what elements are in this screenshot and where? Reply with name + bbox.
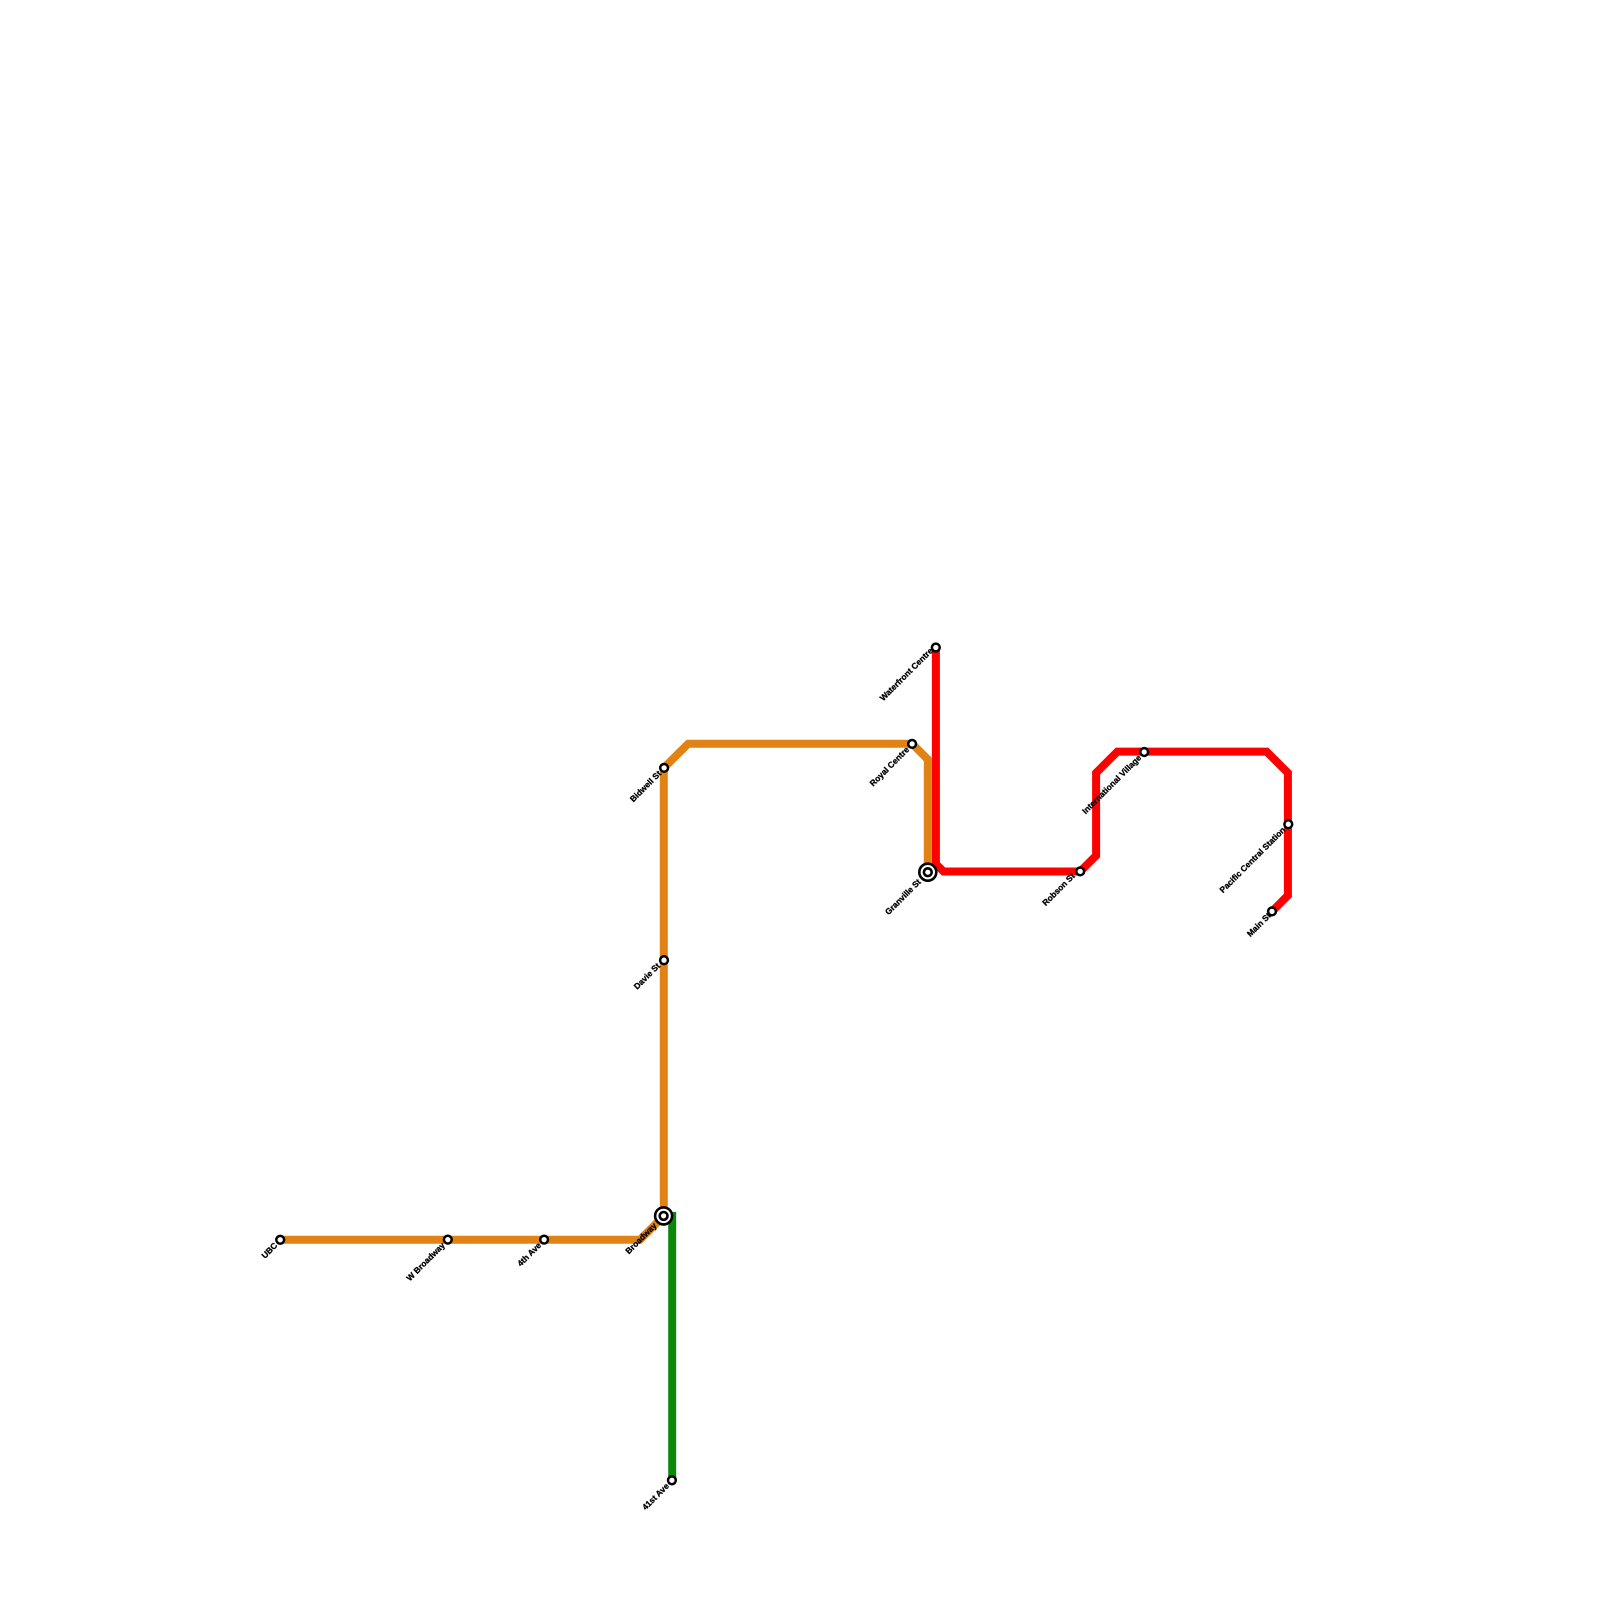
- station Davie St: [660, 956, 668, 964]
- station Pacific Central Station: [1284, 820, 1292, 828]
- station W Broadway: [444, 1236, 452, 1244]
- station Main St: [1268, 908, 1276, 916]
- station Robson St: [1076, 868, 1084, 876]
- interchange Granville St: [919, 864, 936, 881]
- station 41st Ave: [668, 1476, 676, 1484]
- interchange Broadway: [655, 1207, 672, 1224]
- station Bidwell St: [660, 764, 668, 772]
- orange line UBC to Granville St: [280, 744, 928, 1240]
- red line Waterfront Centre to Main St: [936, 648, 1288, 912]
- station Waterfront Centre: [932, 644, 940, 652]
- station UBC: [276, 1236, 284, 1244]
- green line Broadway to 41st Ave: [668, 1212, 676, 1480]
- station Royal Centre: [908, 740, 916, 748]
- station International Village: [1140, 748, 1148, 756]
- station 4th Ave: [540, 1236, 548, 1244]
